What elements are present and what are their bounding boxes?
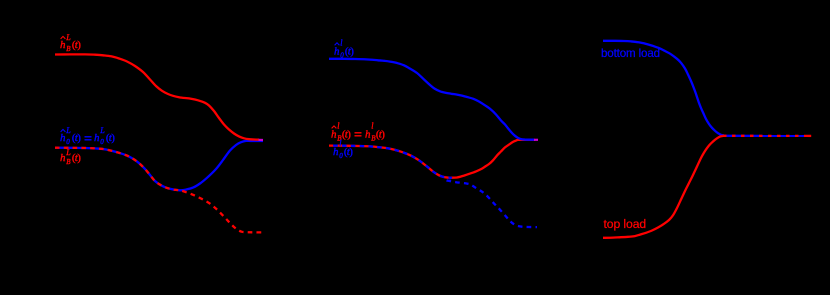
svg-text:h: h bbox=[60, 152, 66, 164]
svg-text:B: B bbox=[66, 158, 71, 166]
svg-text:0: 0 bbox=[339, 152, 343, 160]
svg-text:L: L bbox=[65, 148, 71, 157]
svg-text:L: L bbox=[99, 126, 105, 135]
svg-text:0: 0 bbox=[66, 138, 70, 146]
svg-text:L: L bbox=[65, 126, 71, 135]
svg-text:): ) bbox=[77, 132, 81, 144]
svg-text:B: B bbox=[66, 45, 71, 53]
svg-text:h: h bbox=[365, 129, 371, 141]
svg-text:l: l bbox=[340, 38, 343, 47]
svg-text:h: h bbox=[334, 45, 340, 57]
svg-text:0: 0 bbox=[100, 138, 104, 146]
svg-text:top load: top load bbox=[604, 217, 647, 231]
svg-text:): ) bbox=[350, 45, 354, 57]
svg-text:h: h bbox=[94, 132, 100, 144]
svg-text:h: h bbox=[331, 129, 337, 141]
svg-text:): ) bbox=[347, 129, 351, 141]
svg-text:bottom load: bottom load bbox=[601, 47, 660, 60]
svg-text:L: L bbox=[65, 33, 71, 42]
svg-text:l: l bbox=[371, 122, 374, 131]
svg-text:h: h bbox=[333, 146, 339, 158]
svg-text:): ) bbox=[111, 132, 115, 144]
svg-text:): ) bbox=[381, 129, 385, 141]
svg-text:h: h bbox=[60, 132, 66, 144]
svg-text:l: l bbox=[337, 122, 340, 131]
svg-text:0: 0 bbox=[340, 51, 344, 59]
svg-text:): ) bbox=[77, 39, 81, 51]
svg-text:): ) bbox=[77, 152, 81, 164]
svg-text:h: h bbox=[60, 39, 66, 51]
svg-text:): ) bbox=[349, 146, 353, 158]
